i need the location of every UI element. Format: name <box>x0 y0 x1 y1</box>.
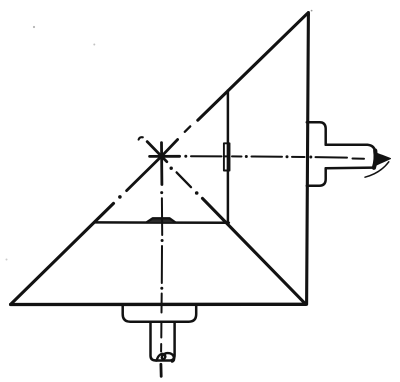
scan speck 2 <box>93 44 95 46</box>
centerline: contact pitch line dash from O (lower-right) <box>162 156 167 161</box>
hub boss upper outline (right gear) <box>307 122 326 144</box>
shaft S1 break tail swash <box>365 162 389 177</box>
centerline: horizontal axis stub through center O <box>150 155 180 158</box>
hub boss outline (bottom gear) <box>123 305 197 322</box>
centerline: pitch line dash from O toward apex (upper-right) <box>162 140 178 157</box>
hub boss lower outline (right gear) <box>307 168 326 185</box>
centerline: contact pitch line dot 2 (lower-right) <box>195 191 199 195</box>
cone 1 inner face vertical line <box>227 91 230 223</box>
shaft S1 bottom line <box>326 166 374 169</box>
shaft S1 broken-end blob <box>374 151 376 168</box>
wire: cone 2 left silhouette solid segment <box>11 203 114 304</box>
wire: pitch-cone silhouette upper-right solid (cone 1 upper edge) <box>198 13 309 120</box>
centerline: short stub from O toward upper-left <box>147 142 161 157</box>
centerline: pitch line dash from O toward lower-left <box>127 156 162 190</box>
scan speck 1 <box>33 26 35 28</box>
cone 1 base vertical line (right gear large end) <box>307 13 309 305</box>
centerline: pitch line dot (lower-left) <box>118 195 122 199</box>
cone 2 top face line <box>95 221 229 224</box>
shaft S2 break scribble loops <box>157 353 174 362</box>
node O: center star crossing <box>159 154 164 159</box>
shaft S1 break flag <box>376 153 391 165</box>
centerline: vertical axis heavy stub below shaft S2 <box>159 364 162 376</box>
shaft S1 top line <box>326 145 376 153</box>
scan speck at apex <box>311 10 313 12</box>
centerline: pitch line dot (upper-right) <box>185 126 190 131</box>
centerline: vertical axis dash-dot downward <box>160 191 163 351</box>
shaft S2 left line <box>151 322 157 361</box>
centerline: vertical axis stub above/below center O <box>160 143 163 185</box>
centerline: contact pitch line dot 1 (lower-right) <box>170 167 173 170</box>
centerline: horizontal axis dash-dot to right shaft <box>184 155 364 159</box>
centerline: contact pitch line dash (lower-right) <box>177 172 191 187</box>
cone 2 bottom edge (base of lower gear) <box>11 303 306 307</box>
wire: contact-line solid segment (cone1 lower / cone2 right edge) <box>203 198 306 304</box>
key K2 bump on cone 2 top face <box>147 218 176 222</box>
key K1 on cone 1 inner face <box>224 143 230 170</box>
centerline: upper-left dot <box>139 137 143 139</box>
shaft S2 bottom and right line <box>156 322 175 361</box>
scan speck 3 <box>6 259 8 261</box>
